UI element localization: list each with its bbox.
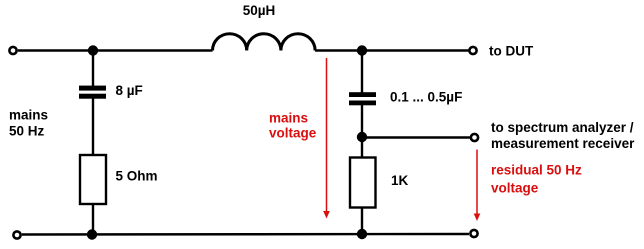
capacitor C1 bottom plate: [79, 94, 106, 99]
terminal: bottom-right return (open circle): [470, 230, 477, 237]
capacitor C1 top plate: [79, 86, 106, 91]
capacitor C2 top plate: [349, 92, 376, 97]
wire: capacitor C2 to node C: [361, 105, 363, 138]
capacitor C2 bottom plate: [349, 101, 376, 106]
svg-text:to spectrum analyzer /: to spectrum analyzer /: [491, 120, 634, 135]
arrow: mains voltage measurement arrow: [323, 58, 330, 219]
wire: node A down to capacitor C1: [92, 51, 94, 87]
resistor R2 body: [350, 158, 376, 208]
node C (junction of measurement tap): [357, 132, 367, 142]
svg-text:50µH: 50µH: [243, 3, 276, 18]
svg-text:to DUT: to DUT: [489, 44, 534, 59]
terminal: to spectrum analyzer (mid-right open circle): [471, 134, 478, 141]
node A (junction of top rail and 8uF branch): [88, 45, 98, 55]
svg-text:measurement receiver: measurement receiver: [491, 136, 635, 151]
svg-text:voltage: voltage: [491, 181, 539, 196]
wire: capacitor C1 to resistor R1: [92, 98, 94, 155]
wire: node C to resistor R2: [361, 137, 363, 158]
wire: bottom rail: [22, 233, 469, 236]
wire: top rail, inductor L1 to node B: [315, 49, 362, 51]
svg-text:voltage: voltage: [269, 125, 317, 140]
svg-text:50 Hz: 50 Hz: [9, 124, 45, 139]
wire: node B down to capacitor C2: [361, 51, 363, 94]
node D (junction of bottom rail and R1): [87, 229, 97, 239]
svg-text:5 Ohm: 5 Ohm: [116, 169, 158, 184]
arrow: residual 50 Hz voltage arrow: [474, 150, 481, 222]
wire: top rail, node B to DUT terminal: [362, 49, 469, 51]
terminal: to DUT (top-right open circle): [469, 47, 476, 54]
wire: node C to spectrum analyzer terminal: [362, 136, 470, 138]
node B (junction of top rail and 0.1-0.5uF branch): [357, 45, 367, 55]
wire: resistor R2 to bottom rail: [361, 207, 363, 235]
terminal: mains input phase (top-left open circle): [9, 47, 16, 54]
svg-text:mains: mains: [9, 108, 48, 123]
svg-text:0.1 ... 0.5µF: 0.1 ... 0.5µF: [390, 90, 462, 105]
node E (junction of bottom rail and R2): [357, 229, 367, 239]
wire: top rail, node A to inductor L1: [93, 49, 213, 51]
svg-text:1K: 1K: [391, 173, 409, 188]
resistor R1 body: [80, 155, 106, 204]
svg-text:8 µF: 8 µF: [116, 83, 143, 98]
wire: resistor R1 to bottom rail: [92, 204, 94, 235]
wire: top rail, input terminal to node A: [18, 49, 93, 51]
terminal: mains input neutral (bottom-left open circle): [13, 231, 20, 238]
svg-text:mains: mains: [269, 111, 308, 126]
inductor L1: [213, 34, 316, 51]
svg-text:residual 50 Hz: residual 50 Hz: [491, 163, 582, 178]
